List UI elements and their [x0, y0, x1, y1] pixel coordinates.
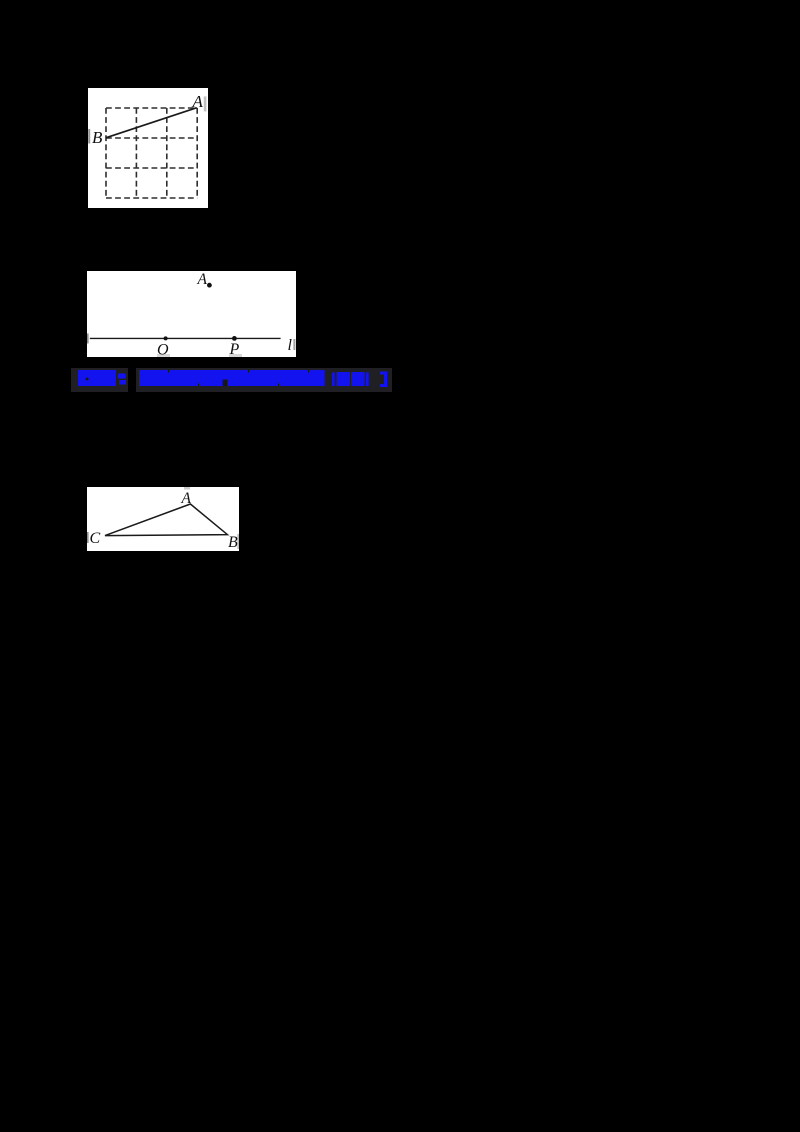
svg-text:O: O — [157, 342, 169, 358]
svg-text:B: B — [92, 128, 103, 147]
svg-text:A: A — [181, 490, 192, 507]
svg-text:A: A — [192, 92, 204, 111]
svg-text:l: l — [288, 337, 293, 354]
svg-text:C: C — [90, 530, 101, 547]
svg-text:P: P — [229, 341, 240, 357]
svg-text:A: A — [197, 271, 208, 288]
svg-text:B: B — [228, 534, 238, 551]
